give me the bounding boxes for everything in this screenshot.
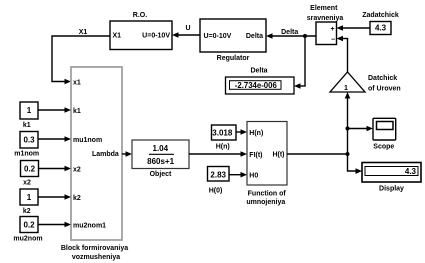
- svg-text:mu1nom: mu1nom: [73, 137, 102, 144]
- svg-text:m1nom: m1nom: [14, 151, 39, 158]
- svg-text:vozmusheniya: vozmusheniya: [72, 254, 120, 261]
- wire Object to Function FI(t) input: [189, 151, 247, 157]
- constant m1nom value 0.3: [14, 132, 39, 158]
- wire X1: R.O. to big block x1 input: [52, 29, 110, 84]
- svg-text:H(n): H(n): [216, 144, 230, 151]
- svg-text:Scope: Scope: [373, 144, 394, 151]
- svg-text:0.2: 0.2: [23, 221, 35, 230]
- block Function of umnojeniya: [246, 122, 287, 207]
- wire H(t): Function output to junction: [287, 153, 348, 155]
- block Regulator: [200, 19, 266, 62]
- svg-text:Regulator: Regulator: [217, 55, 250, 62]
- svg-text:1: 1: [344, 85, 348, 92]
- svg-text:+: +: [330, 26, 334, 33]
- svg-text:x1: x1: [73, 80, 81, 87]
- constant k2 value 1: [20, 189, 38, 215]
- svg-text:0.3: 0.3: [23, 136, 35, 145]
- svg-text:2.83: 2.83: [210, 170, 226, 179]
- svg-text:0.2: 0.2: [24, 165, 36, 174]
- wire U: Regulator to R.O.: [172, 25, 200, 38]
- wire gain output to sum minus input: [337, 36, 349, 72]
- constant H(0) value 2.83: [208, 167, 230, 195]
- svg-text:of Uroven: of Uroven: [368, 85, 401, 92]
- wire junction up to gain input: [345, 92, 351, 154]
- svg-text:x2: x2: [23, 180, 31, 187]
- svg-text:umnojeniya: umnojeniya: [246, 199, 285, 206]
- wire k1 to block: [38, 107, 71, 113]
- svg-text:4.3: 4.3: [405, 167, 417, 176]
- svg-text:Block formirovaniya: Block formirovaniya: [61, 245, 128, 252]
- svg-text:H(t): H(t): [272, 152, 284, 159]
- block Object transfer function 1.04/(860s+1): [132, 140, 189, 178]
- svg-text:-2.734e-006: -2.734e-006: [235, 81, 278, 90]
- svg-text:1.04: 1.04: [153, 144, 169, 153]
- constant H(n) value 3.018: [212, 125, 237, 151]
- node junction on Delta wire: [303, 34, 307, 38]
- wire junction to Scope: [348, 126, 374, 132]
- svg-text:Element: Element: [310, 5, 338, 12]
- constant Zadatchick 4.3: [362, 12, 399, 35]
- constant mu2nom value 0.2: [13, 217, 42, 243]
- constant k1 value 1: [20, 102, 38, 129]
- display Delta -2.734e-006: [226, 67, 295, 94]
- svg-text:H(0): H(0): [209, 188, 223, 195]
- sum block Element sravneniya: [307, 5, 344, 45]
- svg-text:Delta: Delta: [250, 67, 267, 74]
- svg-text:Datchick: Datchick: [368, 75, 397, 82]
- svg-text:R.O.: R.O.: [133, 12, 147, 19]
- block R.O.: [110, 12, 172, 50]
- wire junction down to Delta display: [294, 36, 306, 89]
- svg-text:Object: Object: [150, 171, 172, 178]
- svg-text:Delta: Delta: [246, 33, 263, 40]
- scope Scope: [373, 118, 396, 150]
- wire x2 to block: [39, 166, 72, 172]
- svg-text:3.018: 3.018: [212, 128, 233, 137]
- gain Datchick of Uroven: [330, 72, 401, 92]
- svg-text:k1: k1: [73, 108, 81, 115]
- wire Zadatchick to sum plus input: [337, 25, 371, 31]
- svg-text:mu2nom1: mu2nom1: [73, 223, 106, 230]
- svg-text:mu2nom: mu2nom: [13, 236, 42, 243]
- wire Delta: sum output to Regulator: [266, 29, 316, 39]
- wire m1nom to block: [38, 136, 71, 142]
- wire mu2nom to block: [38, 222, 71, 228]
- wire Lambda: block to Object: [122, 151, 132, 157]
- block Block formirovaniya vozmusheniya: [61, 67, 128, 261]
- wire k2 to block: [38, 194, 71, 200]
- wire 3.018 to Function H(n) input: [236, 129, 247, 135]
- svg-text:Delta: Delta: [281, 29, 298, 36]
- svg-text:FI(t): FI(t): [249, 152, 262, 159]
- svg-text:X1: X1: [113, 33, 122, 40]
- wire junction down to Display: [348, 154, 363, 174]
- wire 2.83 to Function H0 input: [229, 172, 247, 178]
- display Display 4.3: [362, 163, 421, 193]
- svg-text:U=0-10V: U=0-10V: [142, 33, 170, 40]
- svg-text:1: 1: [27, 106, 32, 115]
- constant x2 value 0.2: [21, 161, 39, 187]
- svg-text:x2: x2: [73, 167, 81, 174]
- node junction H(t): [346, 152, 350, 156]
- svg-text:k1: k1: [23, 122, 31, 129]
- svg-text:860s+1: 860s+1: [147, 157, 174, 166]
- svg-text:4.3: 4.3: [375, 24, 387, 33]
- svg-text:U: U: [185, 25, 190, 32]
- svg-text:X1: X1: [79, 29, 88, 36]
- svg-text:sravneniya: sravneniya: [307, 15, 344, 22]
- svg-text:k2: k2: [23, 208, 31, 215]
- svg-text:Function of: Function of: [248, 191, 287, 198]
- svg-text:H0: H0: [249, 173, 258, 180]
- svg-text:H(n): H(n): [249, 130, 263, 137]
- svg-text:k2: k2: [73, 195, 81, 202]
- svg-text:Lambda: Lambda: [92, 151, 119, 158]
- svg-text:−: −: [331, 37, 335, 44]
- svg-text:1: 1: [27, 193, 32, 202]
- svg-text:Zadatchick: Zadatchick: [362, 12, 399, 19]
- svg-text:U=0-10V: U=0-10V: [204, 33, 232, 40]
- node junction scope branch: [346, 127, 350, 131]
- svg-text:Display: Display: [379, 185, 404, 192]
